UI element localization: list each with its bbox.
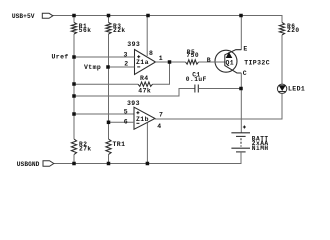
svg-text:Vtmp: Vtmp: [84, 64, 101, 71]
svg-text:220: 220: [287, 27, 300, 34]
svg-text:C: C: [243, 70, 247, 77]
svg-text:Z1b: Z1b: [136, 116, 149, 123]
svg-text:393: 393: [127, 100, 140, 107]
svg-text:NiMH: NiMH: [252, 145, 269, 152]
svg-text:6: 6: [124, 118, 128, 125]
svg-text:TR1: TR1: [113, 141, 126, 148]
svg-text:7: 7: [159, 111, 163, 118]
svg-text:USBGND: USBGND: [17, 161, 40, 168]
svg-text:R4: R4: [140, 75, 149, 82]
svg-text:LED1: LED1: [288, 86, 305, 93]
svg-text:E: E: [243, 45, 247, 52]
svg-text:56k: 56k: [79, 27, 92, 34]
svg-text:B: B: [207, 57, 211, 64]
svg-text:8: 8: [149, 50, 153, 57]
svg-text:0.1uF: 0.1uF: [186, 76, 207, 83]
svg-text:USB+5V: USB+5V: [12, 13, 35, 20]
svg-text:750: 750: [186, 52, 199, 59]
svg-text:1: 1: [159, 55, 163, 62]
svg-text:27k: 27k: [79, 145, 92, 152]
svg-text:TIP32C: TIP32C: [244, 60, 270, 67]
svg-text:Q1: Q1: [226, 60, 235, 67]
svg-text:5: 5: [124, 108, 128, 115]
svg-text:2: 2: [124, 60, 128, 67]
svg-text:47k: 47k: [138, 87, 151, 94]
svg-text:393: 393: [127, 41, 140, 48]
svg-text:3: 3: [124, 51, 128, 58]
svg-text:Z1a: Z1a: [136, 59, 149, 66]
svg-text:4: 4: [157, 123, 161, 130]
svg-text:Uref: Uref: [52, 54, 69, 61]
svg-text:22k: 22k: [113, 27, 126, 34]
